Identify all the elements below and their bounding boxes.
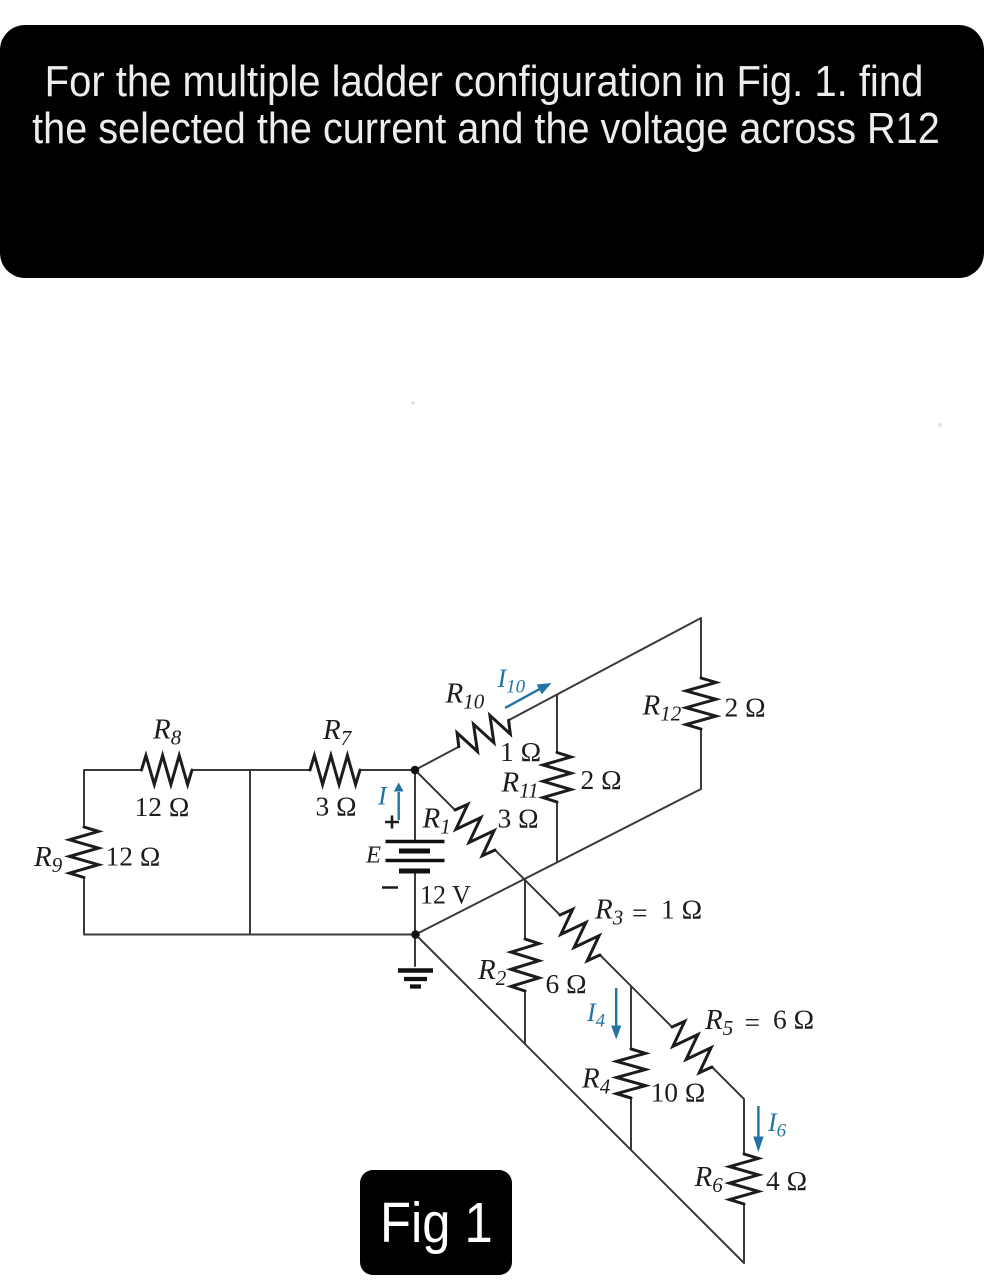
svg-text:R1: R1 xyxy=(422,803,451,839)
svg-text:E: E xyxy=(365,842,381,869)
svg-text:R11: R11 xyxy=(501,767,539,803)
svg-text:R6: R6 xyxy=(694,1161,724,1197)
svg-text:3 Ω: 3 Ω xyxy=(316,791,357,822)
svg-text:6 Ω: 6 Ω xyxy=(773,1004,814,1035)
svg-text:I4: I4 xyxy=(586,998,606,1032)
svg-text:3 Ω: 3 Ω xyxy=(498,803,539,834)
svg-text:4 Ω: 4 Ω xyxy=(766,1165,807,1196)
svg-text:I6: I6 xyxy=(767,1108,787,1142)
svg-text:12 Ω: 12 Ω xyxy=(135,791,190,822)
svg-text:=: = xyxy=(632,897,648,928)
svg-text:1 Ω: 1 Ω xyxy=(661,894,702,925)
svg-text:I10: I10 xyxy=(497,664,526,698)
svg-text:R4: R4 xyxy=(581,1063,611,1099)
svg-text:R12: R12 xyxy=(642,690,682,726)
svg-text:1 Ω: 1 Ω xyxy=(500,736,541,767)
svg-text:R5: R5 xyxy=(704,1004,733,1040)
svg-text:10 Ω: 10 Ω xyxy=(651,1077,706,1108)
svg-text:6 Ω: 6 Ω xyxy=(546,968,587,999)
svg-text:R10: R10 xyxy=(445,678,485,714)
svg-text:R8: R8 xyxy=(152,714,182,750)
svg-text:12 V: 12 V xyxy=(420,881,471,910)
svg-text:=: = xyxy=(745,1007,761,1038)
svg-text:2 Ω: 2 Ω xyxy=(581,764,622,795)
svg-text:R2: R2 xyxy=(477,954,507,990)
svg-text:2 Ω: 2 Ω xyxy=(725,692,766,723)
svg-text:R3: R3 xyxy=(594,894,623,930)
svg-text:R9: R9 xyxy=(33,841,63,877)
svg-text:I: I xyxy=(377,782,388,811)
svg-text:R7: R7 xyxy=(322,714,353,750)
svg-text:12 Ω: 12 Ω xyxy=(106,841,161,872)
